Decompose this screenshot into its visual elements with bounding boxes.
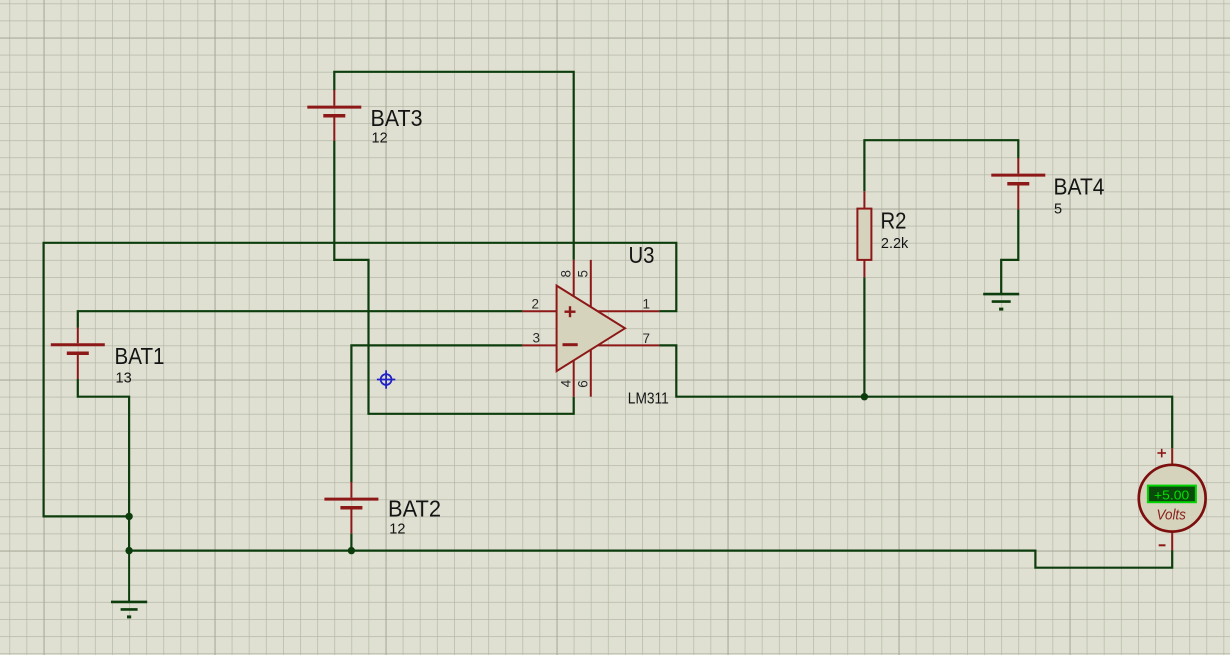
svg-text:7: 7 [643, 331, 651, 346]
svg-text:12: 12 [372, 131, 388, 147]
wire: op-amp pin 3 (- input) left and down to BAT2 [351, 345, 522, 482]
pin 5 [590, 260, 592, 307]
svg-text:Volts: Volts [1157, 507, 1187, 524]
op-amp - input mark [563, 343, 578, 346]
voltmeter LCD display [1148, 486, 1196, 503]
svg-text:12: 12 [389, 522, 405, 538]
voltmeter - terminal stem [1171, 531, 1173, 551]
wire: bottom ground rail to voltmeter negative [129, 550, 1172, 567]
origin marker (blue crosshair) [377, 370, 395, 388]
wire: pin 7 output right to voltmeter positive [659, 345, 1172, 448]
pin 7 [598, 344, 660, 346]
wire: junction A down to bottom rail [128, 516, 130, 550]
svg-text:BAT4: BAT4 [1054, 174, 1105, 200]
junction node D (R2 on output net) [861, 393, 868, 400]
svg-text:4: 4 [559, 379, 574, 387]
svg-text:6: 6 [576, 380, 591, 388]
svg-text:BAT3: BAT3 [371, 105, 423, 131]
battery BAT1 [51, 328, 105, 379]
svg-text:2: 2 [532, 297, 540, 312]
ground (BAT4) [983, 294, 1019, 309]
wire: BAT3 top rail over to pin 8 [334, 72, 573, 260]
pin 6 [590, 350, 592, 397]
voltmeter + terminal stem [1171, 448, 1173, 465]
pin 2 [522, 310, 557, 312]
voltmeter - mark [1159, 544, 1166, 546]
wire: BAT3 bottom, stepped run to pin 4 [334, 141, 573, 414]
svg-text:5: 5 [576, 270, 591, 278]
wire: R2 bottom to output node [863, 277, 865, 396]
pin 3 [522, 344, 557, 346]
wire: BAT1 bottom down and right to junction A [78, 379, 129, 517]
resistor R2 [857, 191, 871, 277]
svg-text:R2: R2 [881, 207, 907, 233]
battery BAT3 [307, 90, 361, 141]
svg-text:13: 13 [116, 370, 132, 386]
voltmeter + mark [1157, 449, 1166, 458]
wire: BAT2 bottom to bottom rail junction [350, 533, 352, 550]
pin 8 [573, 260, 575, 296]
ground (left, bottom rail) [111, 551, 147, 617]
svg-text:BAT2: BAT2 [388, 496, 441, 522]
voltmeter body [1139, 465, 1206, 532]
pin 1 [598, 310, 660, 312]
wire: R2 top over to BAT4 [864, 140, 1018, 191]
svg-text:5: 5 [1054, 202, 1062, 218]
svg-text:+5.00: +5.00 [1154, 489, 1189, 503]
battery BAT2 [324, 482, 378, 533]
svg-text:2.2k: 2.2k [881, 236, 909, 252]
svg-text:LM311: LM311 [628, 391, 669, 408]
svg-text:3: 3 [533, 330, 541, 345]
svg-text:1: 1 [643, 297, 651, 312]
op-amp U3 body [557, 286, 625, 372]
wire: pin 1 up over top rail, down left side to junction A [44, 243, 677, 517]
op-amp + input mark [565, 306, 576, 317]
battery BAT4 [991, 158, 1045, 209]
svg-text:U3: U3 [629, 242, 655, 268]
junction node A [125, 513, 132, 520]
pin 4 [573, 360, 575, 396]
junction node C (BAT2 on bottom rail) [348, 547, 355, 554]
junction node B (bottom rail / ground) [125, 547, 132, 554]
wire: BAT1 top to op-amp pin 2 (+ input net) [78, 311, 523, 328]
svg-text:8: 8 [559, 270, 574, 278]
svg-text:BAT1: BAT1 [115, 343, 165, 369]
wire: BAT4 bottom to ground [1001, 209, 1018, 294]
